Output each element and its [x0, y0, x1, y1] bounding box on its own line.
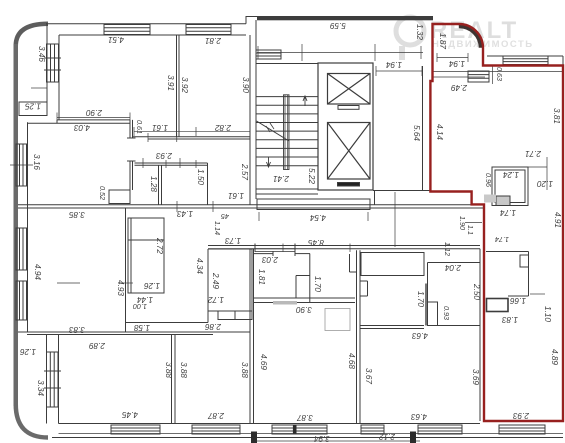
red apt inner top line [433, 71, 563, 73]
svg-text:1.72: 1.72 [208, 295, 224, 304]
svg-text:1.81: 1.81 [257, 269, 266, 285]
top outer thin line [46, 23, 246, 25]
svg-text:1.90: 1.90 [458, 216, 467, 230]
window top red apt [503, 56, 548, 65]
red outline arc wall dark [459, 27, 481, 48]
svg-text:2.81: 2.81 [205, 36, 222, 45]
svg-text:3.88: 3.88 [240, 362, 249, 378]
svg-text:2.49: 2.49 [211, 272, 220, 289]
wall 1.58 [126, 322, 208, 324]
window left 2 [16, 228, 27, 270]
svg-text:1.70: 1.70 [416, 291, 425, 307]
svg-text:4.69: 4.69 [259, 354, 268, 370]
svg-text:1.73: 1.73 [225, 236, 241, 245]
svg-text:2.87: 2.87 [208, 411, 225, 420]
svg-text:1.24: 1.24 [503, 170, 519, 179]
wall room403 left inner [27, 122, 29, 332]
window left 1 [16, 144, 27, 186]
stair arrow up [303, 96, 307, 106]
svg-text:2.12: 2.12 [379, 432, 396, 441]
corridor bottom wall [208, 245, 480, 247]
dim line 2.49 [433, 76, 485, 78]
stair west wall [255, 20, 257, 199]
window left 3 [16, 281, 27, 320]
svg-text:1.25: 1.25 [25, 102, 41, 111]
svg-text:3.16: 3.16 [32, 154, 41, 170]
dim line 2.90 [57, 117, 130, 119]
svg-text:1.74: 1.74 [495, 235, 509, 244]
svg-text:0.93: 0.93 [442, 306, 451, 320]
svg-text:4.03: 4.03 [74, 123, 90, 132]
stairs treads [256, 96, 318, 98]
svg-text:5.59: 5.59 [330, 21, 346, 30]
svg-text:3.67: 3.67 [364, 368, 373, 384]
bottom-left room walls [46, 335, 48, 424]
svg-text:4.45: 4.45 [122, 410, 138, 419]
wall room403 top [57, 119, 130, 121]
shelf under 1.72 [218, 311, 252, 320]
top window wall red apt [487, 55, 563, 57]
svg-text:0.63: 0.63 [495, 67, 504, 81]
svg-text:2.93: 2.93 [513, 411, 530, 420]
stair arrow down [267, 157, 271, 167]
bath walls y163.5 [135, 162, 208, 164]
svg-text:1.28: 1.28 [149, 176, 158, 192]
svg-text:1.66: 1.66 [510, 296, 526, 305]
svg-text:3.46: 3.46 [37, 46, 46, 62]
svg-text:3.87: 3.87 [297, 413, 313, 422]
vestibule vent box [256, 50, 281, 59]
svg-text:4.91: 4.91 [553, 212, 562, 228]
svg-text:2.41: 2.41 [273, 174, 290, 183]
shaft 1.66 [487, 299, 509, 312]
dim ticks [10, 88, 482, 283]
svg-text:4.89: 4.89 [550, 349, 559, 365]
svg-text:1.43: 1.43 [177, 209, 193, 218]
svg-text:0.52: 0.52 [98, 186, 107, 200]
dim line vertical x395 [394, 192, 396, 247]
svg-text:1.87: 1.87 [438, 33, 447, 49]
svg-text:45: 45 [220, 212, 229, 221]
svg-text:1.26: 1.26 [20, 347, 36, 356]
red outline [430, 24, 563, 421]
red apt bath shaft box [492, 167, 528, 206]
svg-text:3.92: 3.92 [180, 77, 189, 93]
svg-text:4.63: 4.63 [412, 331, 428, 340]
svg-text:2.04: 2.04 [445, 263, 462, 272]
svg-text:3.94: 3.94 [314, 434, 330, 443]
bottom wall inner [59, 423, 481, 425]
svg-text:2.50: 2.50 [472, 283, 481, 300]
svg-text:1.32: 1.32 [415, 24, 424, 40]
wall rooms right x250 [249, 35, 251, 205]
divider 3.87|4.63 [356, 250, 358, 423]
svg-text:2.93: 2.93 [156, 151, 173, 160]
svg-text:3.88: 3.88 [164, 362, 173, 378]
notch step [360, 280, 368, 282]
top dark wall bar [257, 16, 433, 20]
svg-text:1.83: 1.83 [502, 315, 518, 324]
window top 1 [104, 25, 150, 35]
svg-text:3.34: 3.34 [36, 380, 45, 396]
red apt hall walls [486, 251, 529, 253]
svg-text:2.71: 2.71 [525, 149, 542, 158]
furniture box [325, 309, 350, 331]
svg-text:4.63: 4.63 [411, 412, 427, 421]
elevator 1 cab [328, 74, 371, 105]
lobby dim line [257, 52, 423, 54]
grey block at notch [484, 195, 496, 203]
svg-text:3.91: 3.91 [166, 75, 175, 91]
pilaster stub [349, 254, 351, 272]
svg-text:3.85: 3.85 [69, 210, 85, 219]
svg-text:4.34: 4.34 [195, 258, 204, 274]
corridor top wall [18, 204, 484, 206]
svg-text:2.49: 2.49 [451, 83, 468, 92]
svg-text:2.89: 2.89 [89, 341, 106, 350]
svg-text:5.22: 5.22 [307, 168, 316, 184]
red apt wall 2.71 [492, 166, 547, 168]
room 2.50 walls [428, 262, 481, 264]
svg-text:1.94: 1.94 [449, 59, 465, 68]
apt left wall x480 [479, 249, 481, 421]
window top 2 [186, 25, 231, 35]
texts: vertical dims [32, 24, 562, 396]
divider 2.87|3.87 [249, 249, 251, 424]
elevator shaft outer [318, 63, 373, 190]
outer wall bottom-left arc [16, 404, 48, 438]
wall rooms bottom (hall top) [133, 136, 251, 138]
svg-text:1.20: 1.20 [537, 179, 553, 188]
svg-text:2.03: 2.03 [262, 255, 279, 264]
svg-text:1.94: 1.94 [386, 60, 402, 69]
svg-text:3.83: 3.83 [69, 325, 85, 334]
left mid room wall x126 [125, 208, 127, 332]
bottom piers [251, 432, 257, 443]
svg-text:3.88: 3.88 [179, 362, 188, 378]
svg-text:2.57: 2.57 [240, 163, 249, 180]
outer wall top-left arc [16, 24, 48, 46]
svg-text:2.86: 2.86 [205, 322, 222, 331]
shaft 0.93 [425, 284, 427, 326]
stair diagonal [257, 121, 290, 141]
svg-text:1.61: 1.61 [152, 123, 168, 132]
svg-text:1.26: 1.26 [144, 281, 160, 290]
svg-text:1.70: 1.70 [313, 276, 322, 292]
svg-text:4.54: 4.54 [310, 213, 326, 222]
landing band [257, 199, 370, 210]
bathroom 2.03 walls [254, 253, 273, 255]
top step [245, 16, 247, 24]
svg-text:1.58: 1.58 [134, 323, 150, 332]
svg-text:3.81: 3.81 [552, 108, 561, 124]
upper-left room outer face [46, 24, 48, 111]
window left-top (3.46) [47, 44, 59, 82]
divider 4.45|2.87 [171, 335, 173, 424]
svg-text:3.90: 3.90 [296, 305, 312, 314]
upper-left room inner face [58, 35, 60, 120]
room 4.63 top wall [360, 325, 424, 327]
balcony end box 1.25 [19, 102, 47, 116]
room 1.72 walls [207, 249, 209, 323]
bottom windows [111, 425, 545, 434]
window left-bottom (3.34) [47, 352, 59, 407]
top inner face line [59, 34, 246, 36]
svg-text:4.68: 4.68 [347, 353, 356, 369]
niche 2.04 [361, 253, 424, 276]
closet 0.52 [109, 190, 130, 204]
svg-text:1.12: 1.12 [443, 242, 452, 256]
svg-text:1.14: 1.14 [213, 221, 222, 235]
elevator 1 door [338, 106, 359, 110]
stair top line [256, 63, 318, 65]
svg-text:3.69: 3.69 [471, 369, 480, 385]
svg-text:3.90: 3.90 [241, 77, 250, 93]
wall room403 right + door [129, 120, 131, 138]
svg-text:2.82: 2.82 [215, 123, 232, 132]
dim line 1.94 lobby [376, 70, 422, 72]
wall room451/392 divider [176, 35, 178, 137]
watermark logo circle [396, 17, 424, 60]
bottom outer line [52, 437, 563, 439]
svg-text:1.74: 1.74 [500, 208, 516, 217]
svg-text:4.14: 4.14 [435, 124, 444, 140]
svg-text:8.45: 8.45 [308, 238, 324, 247]
svg-text:1.10: 1.10 [543, 306, 552, 322]
svg-text:1.50: 1.50 [196, 169, 205, 185]
lobby bottom wall [373, 190, 431, 192]
dim 1.10 [530, 293, 545, 295]
elevator 2 cab [328, 123, 371, 180]
wall y332 left [18, 331, 250, 333]
stair stringer [284, 95, 290, 170]
outer wall left thick [14, 44, 19, 406]
svg-text:0.61: 0.61 [135, 120, 144, 134]
closet column 2.72 [128, 218, 164, 293]
svg-text:2.90: 2.90 [86, 108, 103, 117]
lobby right wall [422, 66, 424, 191]
svg-text:5.64: 5.64 [412, 125, 421, 141]
svg-text:0.96: 0.96 [484, 173, 493, 187]
svg-text:2.72: 2.72 [155, 237, 164, 254]
svg-text:1.61: 1.61 [228, 191, 244, 200]
svg-text:1.00: 1.00 [133, 302, 147, 311]
svg-text:4.94: 4.94 [33, 264, 42, 280]
svg-text:4.51: 4.51 [108, 35, 124, 44]
stair mid landing lines [256, 188, 318, 190]
vent box [468, 71, 489, 82]
elevator 2 door [338, 183, 360, 187]
svg-text:4.93: 4.93 [116, 280, 125, 296]
